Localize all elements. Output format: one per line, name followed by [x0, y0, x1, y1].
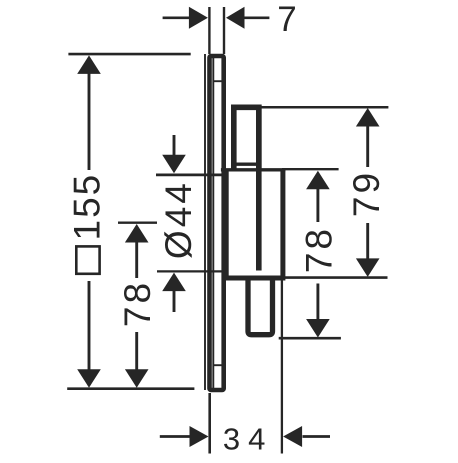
dim 78 left: center tick line [118, 221, 157, 223]
dim 155 top arrowhead [77, 55, 101, 74]
escutcheon plate outline [210, 56, 224, 390]
dim O44 upper line above arrow [173, 135, 176, 157]
dim O44 down arrowhead [162, 155, 186, 174]
svg-text:79: 79 [346, 170, 387, 217]
dim 155 bottom arrowhead [77, 369, 101, 388]
divider line between cartridge and handle cap [256, 105, 262, 271]
dim 34 left extension line [208, 393, 211, 454]
dim 155/78 bottom extension line [67, 387, 194, 390]
dim 78 right top arrowhead [306, 171, 330, 190]
dim 79 bottom extension line [283, 276, 387, 279]
svg-text:7: 7 [277, 0, 296, 39]
dim 7 left extension line [208, 7, 210, 54]
dim 78 right bottom arrowhead [306, 319, 330, 338]
plate inner edge line [212, 58, 214, 388]
dim 7 right arrowhead [226, 7, 245, 29]
dim 78 left top arrowhead [125, 224, 149, 243]
upper block bottom edge [233, 162, 260, 165]
svg-text:78: 78 [117, 280, 158, 327]
dim O44 top extension line [156, 174, 223, 177]
dim 78 left bottom arrowhead [125, 369, 149, 388]
dim 78 right line upper segment [316, 188, 319, 222]
dim 155 top extension line [68, 53, 190, 56]
big block (thermostat cartridge housing) [226, 169, 283, 278]
svg-text:78: 78 [299, 226, 340, 273]
dim 78 right top extension line [282, 168, 339, 170]
dim 79 top extension line [253, 106, 388, 109]
upper block (stop valve housing) [234, 107, 259, 169]
dim 79 bottom arrowhead [356, 258, 380, 277]
dim 155 line upper segment [88, 72, 91, 170]
dim 155 line lower segment [88, 281, 91, 371]
dim 7 right extension line [223, 7, 225, 54]
dim O44 bottom extension line [157, 270, 222, 272]
dim 34 right arrow line [303, 435, 331, 438]
dim 7 left arrowhead [189, 7, 208, 29]
svg-text:155: 155 [67, 173, 108, 241]
dim 34 left arrow line [160, 435, 190, 438]
lower handle [248, 278, 273, 335]
plate inner tick top [213, 80, 222, 82]
svg-text:Ø44: Ø44 [158, 180, 199, 259]
dim 78 left line lower segment [135, 332, 138, 370]
dim 79 line lower segment [366, 223, 369, 259]
label square symbol of 155 [76, 246, 99, 273]
dim 7 left arrow line [163, 16, 190, 19]
dim 79 top arrowhead [356, 108, 380, 127]
svg-text:34: 34 [223, 421, 273, 456]
dim 34 left arrowhead [190, 426, 209, 447]
dim O44 up arrowhead [162, 273, 186, 292]
dim 78 right line lower segment [316, 284, 319, 321]
dim 7 right arrow line [244, 16, 270, 19]
dim 34 right arrowhead [283, 426, 302, 447]
right extension line from block edge down to 34 dim [281, 277, 283, 454]
wall line [204, 54, 206, 390]
plate inner tick bottom [213, 364, 222, 366]
big block top edge [221, 168, 286, 171]
dim 78 left line upper segment [135, 241, 138, 278]
dim 78 right bottom extension line (handle bottom) [279, 337, 341, 340]
dim 79 line upper segment [366, 125, 369, 167]
dim O44 lower line below arrow [173, 291, 176, 312]
